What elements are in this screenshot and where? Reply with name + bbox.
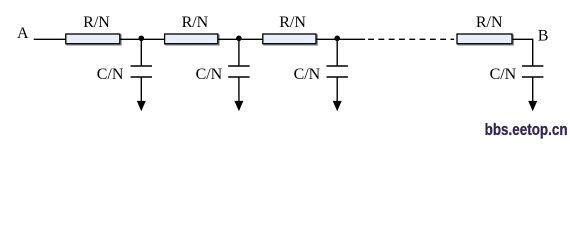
resistor R/N 4 <box>457 14 513 45</box>
resistor R/N 1 <box>66 14 121 45</box>
ground arrow 4 <box>528 101 537 111</box>
wire dashed continuation <box>368 38 454 40</box>
svg-text:R/N: R/N <box>476 14 503 31</box>
resistor R/N 3 <box>263 14 317 45</box>
svg-text:R/N: R/N <box>279 14 306 31</box>
capacitor C/N 2 <box>196 39 250 102</box>
svg-text:R/N: R/N <box>83 14 110 31</box>
resistor R/N 2 <box>165 14 219 45</box>
ground arrow 2 <box>234 101 243 111</box>
capacitor C/N 3 <box>294 39 348 102</box>
wire R1 to R2 <box>120 38 165 40</box>
svg-text:A: A <box>17 25 29 42</box>
node junction 2 <box>236 36 242 42</box>
capacitor C/N 4 <box>490 66 544 102</box>
svg-text:C/N: C/N <box>490 66 517 83</box>
svg-text:C/N: C/N <box>97 66 124 83</box>
svg-text:bbs.eetop.cn: bbs.eetop.cn <box>485 120 568 139</box>
svg-text:C/N: C/N <box>196 66 223 83</box>
wire R4 to corner and down to C4 <box>512 39 533 66</box>
svg-text:C/N: C/N <box>294 66 321 83</box>
ground arrow 1 <box>137 101 146 111</box>
ground arrow 3 <box>333 101 342 111</box>
node junction 3 <box>334 36 340 42</box>
capacitor C/N 1 <box>97 39 152 102</box>
wire R2 to R3 <box>218 38 263 40</box>
wire R3 to junction 3 with stub <box>316 38 365 40</box>
wire A to R1 <box>34 38 66 40</box>
svg-text:B: B <box>538 28 549 45</box>
node junction 1 <box>139 36 145 42</box>
svg-text:R/N: R/N <box>182 14 209 31</box>
